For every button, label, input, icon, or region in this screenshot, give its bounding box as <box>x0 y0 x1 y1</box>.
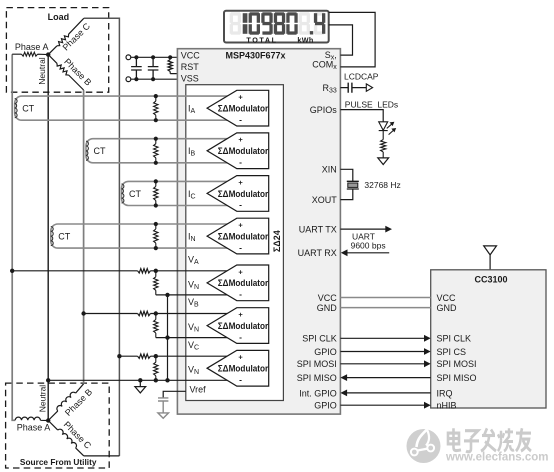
svg-text:9600 bps: 9600 bps <box>351 240 386 250</box>
ground Vref (gray) <box>158 413 169 418</box>
junction dots burden 2 <box>154 137 158 165</box>
svg-text:SPI MOSI: SPI MOSI <box>297 359 337 369</box>
capacitor Vref (gray) <box>158 398 168 413</box>
svg-text:ΣΔModulator: ΣΔModulator <box>218 146 269 156</box>
op-amp modulator IA <box>207 90 269 126</box>
svg-text:GPIO: GPIO <box>314 401 337 411</box>
LCD display box <box>224 11 329 43</box>
svg-text:GND: GND <box>317 303 338 313</box>
terminal VSS (circle) <box>126 77 131 82</box>
wire GPIOs to LED <box>340 110 383 122</box>
svg-text:+: + <box>238 135 243 144</box>
wire XIN <box>340 169 352 181</box>
resistor divider bottom VA <box>154 271 158 295</box>
LED D1 <box>379 122 388 140</box>
wire VN vertical rail <box>167 295 169 380</box>
svg-text:PULSE LEDs: PULSE LEDs <box>345 99 398 109</box>
wire Sx to LCD <box>329 25 353 55</box>
logo text 电子发烧友 (stylized) <box>448 428 531 452</box>
svg-text:+: + <box>238 93 243 102</box>
svg-text:+: + <box>238 310 243 319</box>
svg-text:ΣΔModulator: ΣΔModulator <box>218 189 269 199</box>
wire VC row <box>119 354 228 358</box>
svg-text:+: + <box>238 178 243 187</box>
op-amp modulator IN <box>207 218 269 254</box>
sigma-delta inner box <box>186 85 284 401</box>
svg-text:ΣΔModulator: ΣΔModulator <box>218 321 269 331</box>
svg-text:Int. GPIO: Int. GPIO <box>299 388 337 398</box>
svg-text:CT: CT <box>58 231 70 241</box>
op-amp modulator VA <box>207 265 269 301</box>
wire VB row <box>84 311 229 315</box>
resistor reset R1 <box>168 57 177 73</box>
svg-text:MSP430F677x: MSP430F677x <box>225 50 285 60</box>
svg-text:-: - <box>239 332 242 342</box>
svg-text:www.elecfans.com: www.elecfans.com <box>445 451 548 463</box>
svg-text:-: - <box>239 242 242 252</box>
svg-text:VSS: VSS <box>181 73 199 83</box>
resistor divider bottom VC <box>154 356 158 380</box>
svg-text:SPI CLK: SPI CLK <box>302 334 337 344</box>
svg-text:-: - <box>239 375 242 385</box>
svg-text:-: - <box>239 200 242 210</box>
ground neutral rail <box>135 380 146 393</box>
svg-text:+: + <box>238 267 243 276</box>
svg-text:Phase C: Phase C <box>62 419 94 451</box>
svg-text:+: + <box>238 353 243 362</box>
svg-text:Phase A: Phase A <box>17 423 51 433</box>
junction dots burden 3 <box>154 179 158 207</box>
node phase tap VC <box>117 354 121 358</box>
CT current transformer 1 body <box>15 96 229 120</box>
svg-text:Load: Load <box>48 12 70 22</box>
CT 4 secondary coil <box>51 227 53 246</box>
inductor source phase C (diagonal) <box>48 421 119 456</box>
svg-text:UART TX: UART TX <box>299 225 337 235</box>
logo elecfans icon <box>407 429 441 463</box>
node phase tap VB <box>81 311 85 315</box>
resistor load phase C (diagonal) <box>48 18 84 54</box>
wire phase B vertical <box>83 90 85 384</box>
svg-text:VCC: VCC <box>437 293 457 303</box>
svg-text:CT: CT <box>94 146 106 156</box>
svg-text:ΣΔ24: ΣΔ24 <box>272 230 282 252</box>
capacitor LCDCAP <box>348 83 352 93</box>
node divider VA <box>154 269 158 273</box>
inductor source phase B (diagonal) <box>48 384 83 421</box>
LED D1 light arrows <box>387 122 396 134</box>
capacitor C1 <box>131 57 142 79</box>
wire R33 <box>340 87 366 89</box>
wire VSS rail <box>131 78 178 80</box>
resistor LED R2 <box>381 140 386 158</box>
svg-text:VCC: VCC <box>318 293 338 303</box>
node source center <box>46 418 50 422</box>
svg-text:GPIO: GPIO <box>314 347 337 357</box>
svg-text:Source From Utility: Source From Utility <box>20 457 97 467</box>
wire GND MSP-CC3100 (gray) <box>340 307 430 309</box>
wire neutral rail (VN3 row) <box>48 379 228 381</box>
node divider VC <box>154 354 158 358</box>
CT 3 secondary coil <box>122 184 124 203</box>
svg-text:IRQ: IRQ <box>437 388 453 398</box>
wire VCC MSP-CC3100 (gray) <box>340 297 430 299</box>
crystal Y1 32768 Hz <box>347 181 359 189</box>
svg-text:nHIB: nHIB <box>437 401 457 411</box>
wire Vref <box>163 391 186 397</box>
wire XOUT <box>340 189 352 200</box>
CT current transformer 2 body <box>86 139 229 163</box>
wire UART TX (arrow right) <box>340 228 385 230</box>
resistor burden 1 <box>154 96 158 120</box>
svg-text:SPI MISO: SPI MISO <box>437 373 477 383</box>
svg-text:+: + <box>238 221 243 230</box>
node VN rail 1 <box>165 293 169 297</box>
terminal VCC (circle) <box>126 55 131 60</box>
op-amp modulator IB <box>207 133 269 169</box>
resistor burden 3 <box>154 181 158 205</box>
wire VCC rail <box>131 56 178 58</box>
svg-text:CT: CT <box>129 189 141 199</box>
svg-text:Phase B: Phase B <box>63 387 94 418</box>
wire SPI MOSI (arrow right) <box>340 363 424 365</box>
svg-text:GPIOs: GPIOs <box>310 105 338 115</box>
wire phase C vertical <box>84 18 120 456</box>
svg-text:ΣΔModulator: ΣΔModulator <box>218 278 269 288</box>
wire neutral vertical <box>47 55 49 421</box>
svg-text:RST: RST <box>181 62 200 72</box>
svg-text:LCDCAP: LCDCAP <box>344 72 379 82</box>
arrow LCDCAP (open) <box>366 84 372 91</box>
wire nHIB (arrow right) <box>340 404 424 406</box>
svg-text:SPI CLK: SPI CLK <box>437 334 472 344</box>
op-amp modulator IC <box>207 176 269 212</box>
CT 1 secondary coil <box>15 99 17 118</box>
svg-text:VCC: VCC <box>181 50 201 60</box>
svg-text:Neutral: Neutral <box>38 385 48 413</box>
CT 2 secondary coil <box>86 141 88 160</box>
resistor divider bottom VB <box>154 314 158 338</box>
MSP430F677x block <box>177 49 340 414</box>
node phase tap VA <box>10 269 14 273</box>
svg-text:TOTAL: TOTAL <box>246 36 277 45</box>
svg-text:32768 Hz: 32768 Hz <box>364 180 400 190</box>
inductor source phase A <box>15 417 48 420</box>
wire SPI CLK (arrow right) <box>340 337 424 339</box>
svg-text:-: - <box>239 157 242 167</box>
svg-text:ΣΔModulator: ΣΔModulator <box>218 231 269 241</box>
node load center <box>46 52 50 56</box>
wire VN row 2 <box>156 337 229 339</box>
resistor burden 4 <box>154 224 158 248</box>
wire COMx to LCD <box>329 12 375 67</box>
resistor load phase A <box>12 52 48 56</box>
svg-text:XOUT: XOUT <box>312 195 338 205</box>
wire SPI MISO (arrow left) <box>347 377 431 379</box>
svg-text:SPI MOSI: SPI MOSI <box>437 359 477 369</box>
wire phase A vertical <box>12 54 15 420</box>
svg-text:UART RX: UART RX <box>298 248 337 258</box>
svg-text:CC3100: CC3100 <box>474 274 507 284</box>
svg-text:-: - <box>239 114 242 124</box>
op-amp modulator VB <box>207 308 269 344</box>
antenna <box>484 246 497 255</box>
svg-text:kWh: kWh <box>297 36 313 45</box>
op-amp modulator VC <box>207 350 269 386</box>
wire UART RX (arrow left) <box>347 252 389 254</box>
wire IRQ (arrow left) <box>347 392 431 394</box>
node VN rail 2 <box>165 335 169 339</box>
svg-text:ΣΔModulator: ΣΔModulator <box>218 364 269 374</box>
junction dots neutral rail <box>46 378 170 382</box>
wire VA row <box>12 269 228 273</box>
junction dots power rails <box>134 55 172 81</box>
svg-text:Vref: Vref <box>190 385 207 395</box>
svg-text:XIN: XIN <box>322 165 337 175</box>
junction dots burden 1 <box>154 94 158 122</box>
svg-text:SPI MISO: SPI MISO <box>297 373 337 383</box>
svg-text:GND: GND <box>437 303 458 313</box>
svg-text:SPI CS: SPI CS <box>437 347 467 357</box>
CT current transformer 3 body <box>122 181 229 205</box>
CC3100 block <box>431 270 546 408</box>
wire VN row 1 <box>156 294 229 296</box>
capacitor C2 <box>148 57 159 79</box>
svg-text:-: - <box>239 289 242 299</box>
resistor burden 2 <box>154 139 158 163</box>
CT current transformer 4 body <box>51 224 229 248</box>
LCD seven-segment digits 10980.4 <box>230 12 326 34</box>
source box (dashed) <box>6 383 110 468</box>
svg-text:ΣΔModulator: ΣΔModulator <box>218 103 269 113</box>
svg-text:CT: CT <box>22 103 34 113</box>
resistor load phase B (diagonal) <box>48 55 83 90</box>
svg-text:Neutral: Neutral <box>37 57 47 85</box>
wire SPI CS (arrow right) <box>340 351 424 353</box>
node divider VB <box>154 311 158 315</box>
ground LED <box>378 158 389 165</box>
svg-text:Phase A: Phase A <box>15 42 49 52</box>
load box (dashed) <box>6 8 108 93</box>
junction dots burden 4 <box>154 222 158 250</box>
